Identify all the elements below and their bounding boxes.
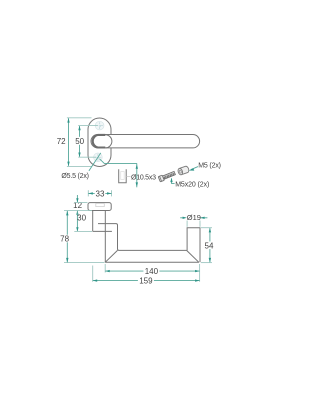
svg-text:50: 50 — [75, 137, 84, 146]
leader M5 — [189, 167, 198, 171]
lever bar — [91, 135, 200, 148]
collar thick cap — [93, 135, 106, 148]
extension line bottom screw — [78, 156, 96, 158]
dimension 140 — [105, 267, 199, 276]
dimension 30 — [76, 211, 86, 232]
sleeve nut M5 — [177, 166, 189, 176]
step top edge — [98, 224, 187, 251]
screw head top — [95, 121, 104, 130]
collar arc — [105, 135, 112, 148]
leader from bottom screw to washer — [100, 159, 139, 188]
extension grip bottom — [64, 262, 105, 264]
mitre left — [105, 250, 117, 262]
svg-text:Ø19: Ø19 — [187, 213, 201, 222]
dimension Ø19 — [180, 213, 207, 227]
dimension 159 — [93, 277, 200, 286]
svg-text:159: 159 — [139, 277, 153, 286]
neck outer edge — [92, 211, 94, 232]
svg-text:30: 30 — [77, 214, 86, 223]
svg-text:72: 72 — [57, 137, 66, 146]
extension line top of rosette — [67, 117, 92, 119]
svg-text:Ø10.5x3: Ø10.5x3 — [131, 174, 156, 181]
extension lines 140/159 — [104, 264, 106, 273]
svg-text:140: 140 — [145, 267, 159, 276]
screw M5x20 — [158, 170, 176, 181]
washer section (Ø10.5x3) — [119, 169, 131, 183]
svg-text:33: 33 — [96, 189, 105, 198]
svg-text:78: 78 — [60, 235, 69, 244]
svg-text:54: 54 — [205, 241, 214, 250]
grip bottom edge — [105, 261, 199, 263]
leader M5x20 — [170, 178, 174, 184]
right post — [187, 228, 200, 263]
extension rosette bottom — [64, 210, 92, 212]
svg-text:Ø5.5 (2x): Ø5.5 (2x) — [61, 173, 88, 180]
svg-text:M5x20 (2x): M5x20 (2x) — [175, 181, 209, 188]
rosette side view — [88, 203, 111, 211]
leader Ø5.5 — [89, 153, 101, 171]
rosette (oval escutcheon) — [88, 118, 111, 167]
neck inner edge — [104, 211, 106, 263]
svg-text:M5 (2x): M5 (2x) — [198, 163, 221, 170]
dimension 33 — [88, 189, 111, 198]
screw head bottom — [94, 153, 103, 162]
dimension 78 — [60, 211, 70, 263]
step bottom edge — [93, 230, 112, 232]
spindle detail — [96, 204, 105, 207]
extension rosette top — [74, 202, 87, 204]
extension step — [74, 230, 92, 232]
mitre right — [187, 250, 199, 262]
dimension 54 — [201, 228, 214, 263]
extension line top screw — [78, 125, 98, 127]
dimension 12 — [73, 195, 82, 215]
extension line bottom of rosette — [67, 165, 92, 167]
dimension 50 — [75, 126, 85, 158]
dimension 72 — [57, 118, 70, 166]
